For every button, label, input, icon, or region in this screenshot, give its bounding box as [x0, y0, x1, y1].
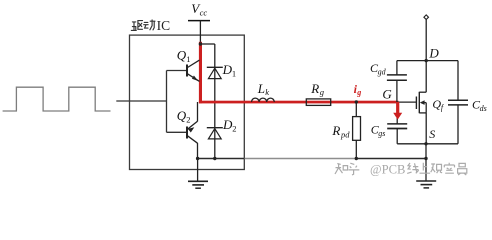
svg-text:D: D [428, 46, 439, 61]
svg-text:2: 2 [186, 114, 190, 124]
wire Rpd top [355, 102, 357, 117]
svg-text:IC: IC [157, 18, 171, 33]
wire D1 D2 column [214, 44, 216, 159]
wire source ground stem [425, 159, 427, 182]
svg-text:ds: ds [480, 104, 487, 113]
node S junction [424, 142, 427, 145]
svg-text:1: 1 [232, 68, 236, 78]
resistor Rg [306, 99, 330, 106]
ground source [416, 181, 436, 188]
Vcc bar [188, 20, 210, 22]
wire base bus vertical [166, 71, 168, 133]
node source rail [424, 157, 427, 160]
svg-text:G: G [382, 86, 392, 101]
bottom rail link box to Rpd [245, 158, 357, 160]
svg-text:g: g [356, 88, 361, 97]
svg-text:R: R [310, 81, 319, 96]
node rail D column [213, 157, 216, 160]
wire input to bases [116, 100, 166, 102]
drain terminal diamond [424, 15, 429, 20]
wire drain stem [425, 20, 427, 61]
svg-text:S: S [429, 127, 435, 141]
node rail left [196, 157, 199, 160]
transistor Q1 [187, 60, 200, 81]
wire Rpd bottom [355, 140, 357, 158]
bottom rail inside box [198, 158, 245, 160]
red gate current path horizontal [199, 101, 399, 104]
resistor Rpd [353, 117, 361, 141]
svg-text:gd: gd [378, 67, 387, 76]
node D junction [425, 59, 428, 62]
svg-text:1: 1 [186, 54, 190, 64]
wire Vcc stem [199, 21, 201, 44]
wire Q1 base [167, 70, 187, 72]
svg-text:L: L [257, 81, 265, 96]
wire gate line to mosfet [397, 101, 416, 103]
red arrow into gate-source [396, 102, 399, 113]
svg-text:R: R [331, 123, 340, 138]
capacitor Cgs [387, 123, 407, 125]
node Vcc junction [199, 42, 202, 45]
wire top branch to D1 [200, 43, 214, 45]
svg-text:cc: cc [200, 7, 208, 17]
drain rail [397, 60, 458, 62]
svg-text:k: k [265, 87, 269, 97]
wire source to rail [425, 144, 427, 159]
svg-text:Q: Q [177, 108, 187, 123]
wire Q2 base [167, 131, 187, 133]
watermark 知乎 @PCB线上观察员 [335, 163, 359, 175]
svg-text:gs: gs [378, 129, 385, 138]
svg-text:pd: pd [340, 129, 350, 139]
wire gate node vertical (under red arrow) [396, 102, 398, 124]
node ig junction [355, 100, 358, 103]
wire driver ground stem [197, 159, 199, 182]
transistor Q2 [187, 102, 198, 159]
driver IC box [130, 35, 245, 169]
diode D2 [207, 127, 223, 129]
input square wave [3, 87, 111, 111]
bottom rail Rpd to source [356, 158, 426, 160]
node Rpd rail [355, 157, 358, 160]
svg-text:2: 2 [232, 123, 236, 133]
capacitor Cgd [396, 61, 398, 75]
inductor Lk [252, 98, 275, 102]
mosfet Qf [416, 61, 426, 144]
svg-text:@PCB: @PCB [370, 163, 405, 177]
diode D1 [207, 66, 223, 68]
svg-text:g: g [320, 87, 324, 97]
ground driver [188, 181, 208, 188]
source rail [397, 143, 458, 145]
label 驱动IC [131, 20, 155, 30]
red turn-on gate current path vertical [199, 42, 202, 104]
svg-text:f: f [441, 103, 445, 112]
capacitor Cds [457, 61, 459, 101]
svg-text:Q: Q [177, 48, 187, 63]
